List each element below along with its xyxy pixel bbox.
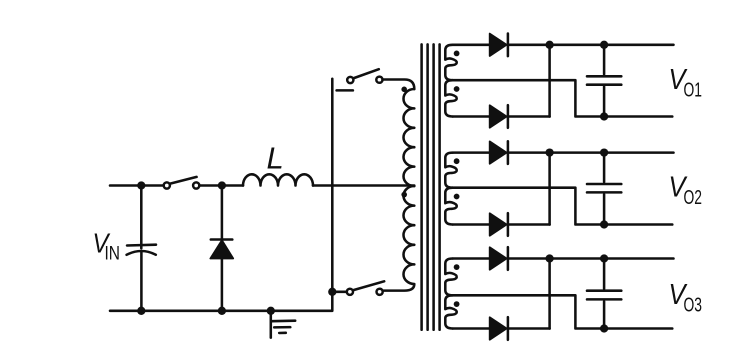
svg-text:O3: O3 bbox=[684, 294, 703, 317]
svg-text:IN: IN bbox=[105, 243, 121, 265]
svg-text:L: L bbox=[267, 140, 284, 175]
svg-text:O1: O1 bbox=[684, 78, 703, 101]
svg-text:O2: O2 bbox=[684, 186, 703, 209]
